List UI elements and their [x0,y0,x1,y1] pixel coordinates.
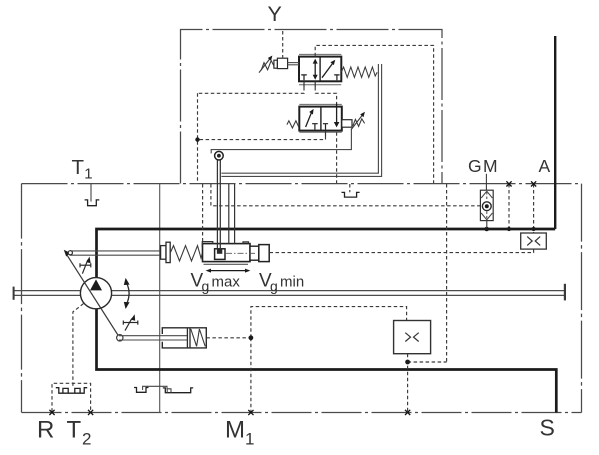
svg-text:A: A [539,156,551,176]
servo mid neck [250,246,259,260]
SECTION: pump [64,250,138,341]
shaft left end bar [13,287,15,300]
SECTION: dashednet [52,31,536,412]
SECTION: thick main lines [97,36,557,413]
valve V1 pilot piston [274,60,278,68]
servo piston rod to swashplate (double line) [70,250,162,252]
adjustment screw symbol upper [80,260,91,274]
wire counter cylinder to M1 node [206,337,251,339]
valve V1 over/under frame lines [299,53,341,55]
svg-text:S: S [540,415,555,441]
orifice (plug) at port M1 line [394,321,431,354]
servo rod-end flange [161,246,166,260]
SECTION: components [394,174,547,354]
wire port A vertical stub [554,36,556,229]
main enclosure left edge [21,184,23,413]
svg-text:Y: Y [268,2,282,26]
node port T2 marker [88,410,93,415]
svg-text:G: G [468,156,482,176]
servo piston [215,249,225,260]
counter spring [191,329,205,346]
swashplate pivot ring [117,335,123,341]
wire left rail down [197,93,199,183]
partition cup left [134,388,149,393]
main enclosure right edge [581,184,583,413]
wire housing to servo rod-side chamber [202,184,204,241]
wire pump case drain [73,304,84,389]
node A tap on work line [532,227,536,231]
servo body top-left tab [202,242,213,247]
node port R marker [49,410,54,415]
wire work line A: pump top port up and right to port A stub [97,229,556,280]
svg-text:M: M [225,417,245,444]
valve V1 pilot rod (double line) [288,62,299,64]
node drain port marker [405,410,410,415]
linkage to valve V2 spring end [211,128,351,153]
valve V2 right pilot box [342,120,352,128]
node port A tap marker [531,181,536,186]
main enclosure bottom edge [22,412,582,414]
valve V2 bottom port stub [325,131,327,136]
servo body bottom lip [204,263,249,265]
valve V2 left spring [287,121,299,128]
pump variable displacement diagonal arrow [66,254,119,338]
valve V2 down arrow [336,104,338,123]
wire drain stub below boundary [349,184,351,192]
wire drive shaft double line [14,290,565,292]
wire M1 node loop up and over to orifice [251,307,407,338]
servo axis line [226,252,257,254]
adjustment screw symbol lower [123,319,138,331]
wire orifice to servo cap long pilot line [269,249,533,252]
valve V1 bottom port stubs [303,81,305,87]
valve V2 blocked port T-marks [312,124,318,130]
valve V2 body [299,107,342,131]
case drain double cup at T2 [56,388,87,394]
boundary x-markers [49,181,536,415]
svg-text:max: max [212,274,241,291]
wire V2 through-line down to housing [336,132,338,183]
servo large-area end cap [259,245,269,262]
top control-box enclosure (dash-dot frame) [181,30,443,184]
node M tap on work line [507,227,511,231]
svg-text:T: T [67,417,82,444]
wire M1 node to bottom port [250,338,252,412]
SECTION: shaft [14,284,565,301]
pump flow triangle (outlet up) [90,279,102,290]
servo cylinder body [203,244,251,262]
shaft right end bar [564,284,566,301]
speed sensor G body [480,190,493,220]
feedback rod (double line) from ball to servo piston [216,160,218,249]
speed sensor G pickup circle [482,202,491,211]
SECTION: servo [68,184,269,264]
valve V2 adjustable spring [353,119,365,127]
valve V1 double-headed arrow [314,62,316,77]
svg-text:min: min [280,274,304,291]
partition cup right [163,388,193,393]
main pump housing enclosure top edge [22,183,582,185]
servo body top-right tab [243,242,249,244]
node sensor on work line [484,227,489,232]
svg-text:1: 1 [84,165,92,182]
wire case drain manifold box R-T2 [52,383,91,411]
valve V1 body [299,57,341,82]
wire V1 arrow top port loop to right and down [315,45,433,183]
wire M1 orifice bottom to drain port [407,354,409,413]
orifice (plug) at port A tap [521,233,547,249]
svg-text:1: 1 [245,430,254,449]
valve V1 diagonal flow arrow [322,63,333,78]
node orifice drain junction [405,360,410,365]
rod eye on swash arrow [68,251,72,255]
wire port M tap down to work line [508,184,510,228]
svg-text:M: M [483,156,498,176]
curved reversing arrow [126,283,129,305]
wire pilot Y down to V1 actuator [282,31,284,58]
drain plugged cup below control box [342,192,360,197]
valve V1 blocked port T-marks [301,75,307,80]
valve V1 pilot actuator: adjustable spring [261,61,274,71]
wire boundary to speed sensor G [211,184,481,206]
counter piston rod (double line) [119,335,187,337]
SECTION: countercyl [119,328,206,348]
partition crossing link [143,386,167,390]
valve V2 diagonal flow arrow [306,113,312,128]
ball joint [215,151,224,160]
wire boundary line down to junction [446,184,448,362]
node port M marker [506,181,511,186]
counter piston [186,328,188,347]
port T1 stub line [90,184,92,202]
counter cylinder body (open left) [162,328,206,348]
servo pilot lines from housing boundary [228,184,230,244]
svg-text:g: g [270,278,278,294]
linkage to valve V1 spring end (double line L) [221,64,378,173]
SECTION: linkage [211,64,381,249]
speed sensor G to work line [486,221,488,228]
pump P1 circle [80,278,111,309]
SECTION: portsyms [49,181,536,415]
wire V1 left port to left rail [198,87,305,93]
svg-text:g: g [202,278,210,294]
speed sensor G connection line [485,174,487,190]
port T1 plugged cup [85,200,100,206]
svg-text:2: 2 [82,430,91,449]
svg-text:T: T [72,156,85,179]
node port M1 marker [248,410,253,415]
wire suction line S: pump bottom port down, right and down to port S [97,309,557,413]
servo return spring [170,246,202,261]
svg-text:R: R [37,417,54,444]
wire V1 right port over to V2 top [315,87,336,104]
wire port A tap down to orifice [533,184,535,233]
node pilot rail junction [195,137,199,141]
valve V2 over/under frame lines [299,103,342,105]
node M1 line junction [249,335,254,340]
SECTION: enclosures [22,30,582,413]
wire V2 bottom port to left rail junction [198,136,326,140]
internal partition wall [159,184,161,413]
wire junction horizontal [408,361,447,363]
valve V1 right spring [341,67,377,77]
SECTION: valves [259,54,377,136]
